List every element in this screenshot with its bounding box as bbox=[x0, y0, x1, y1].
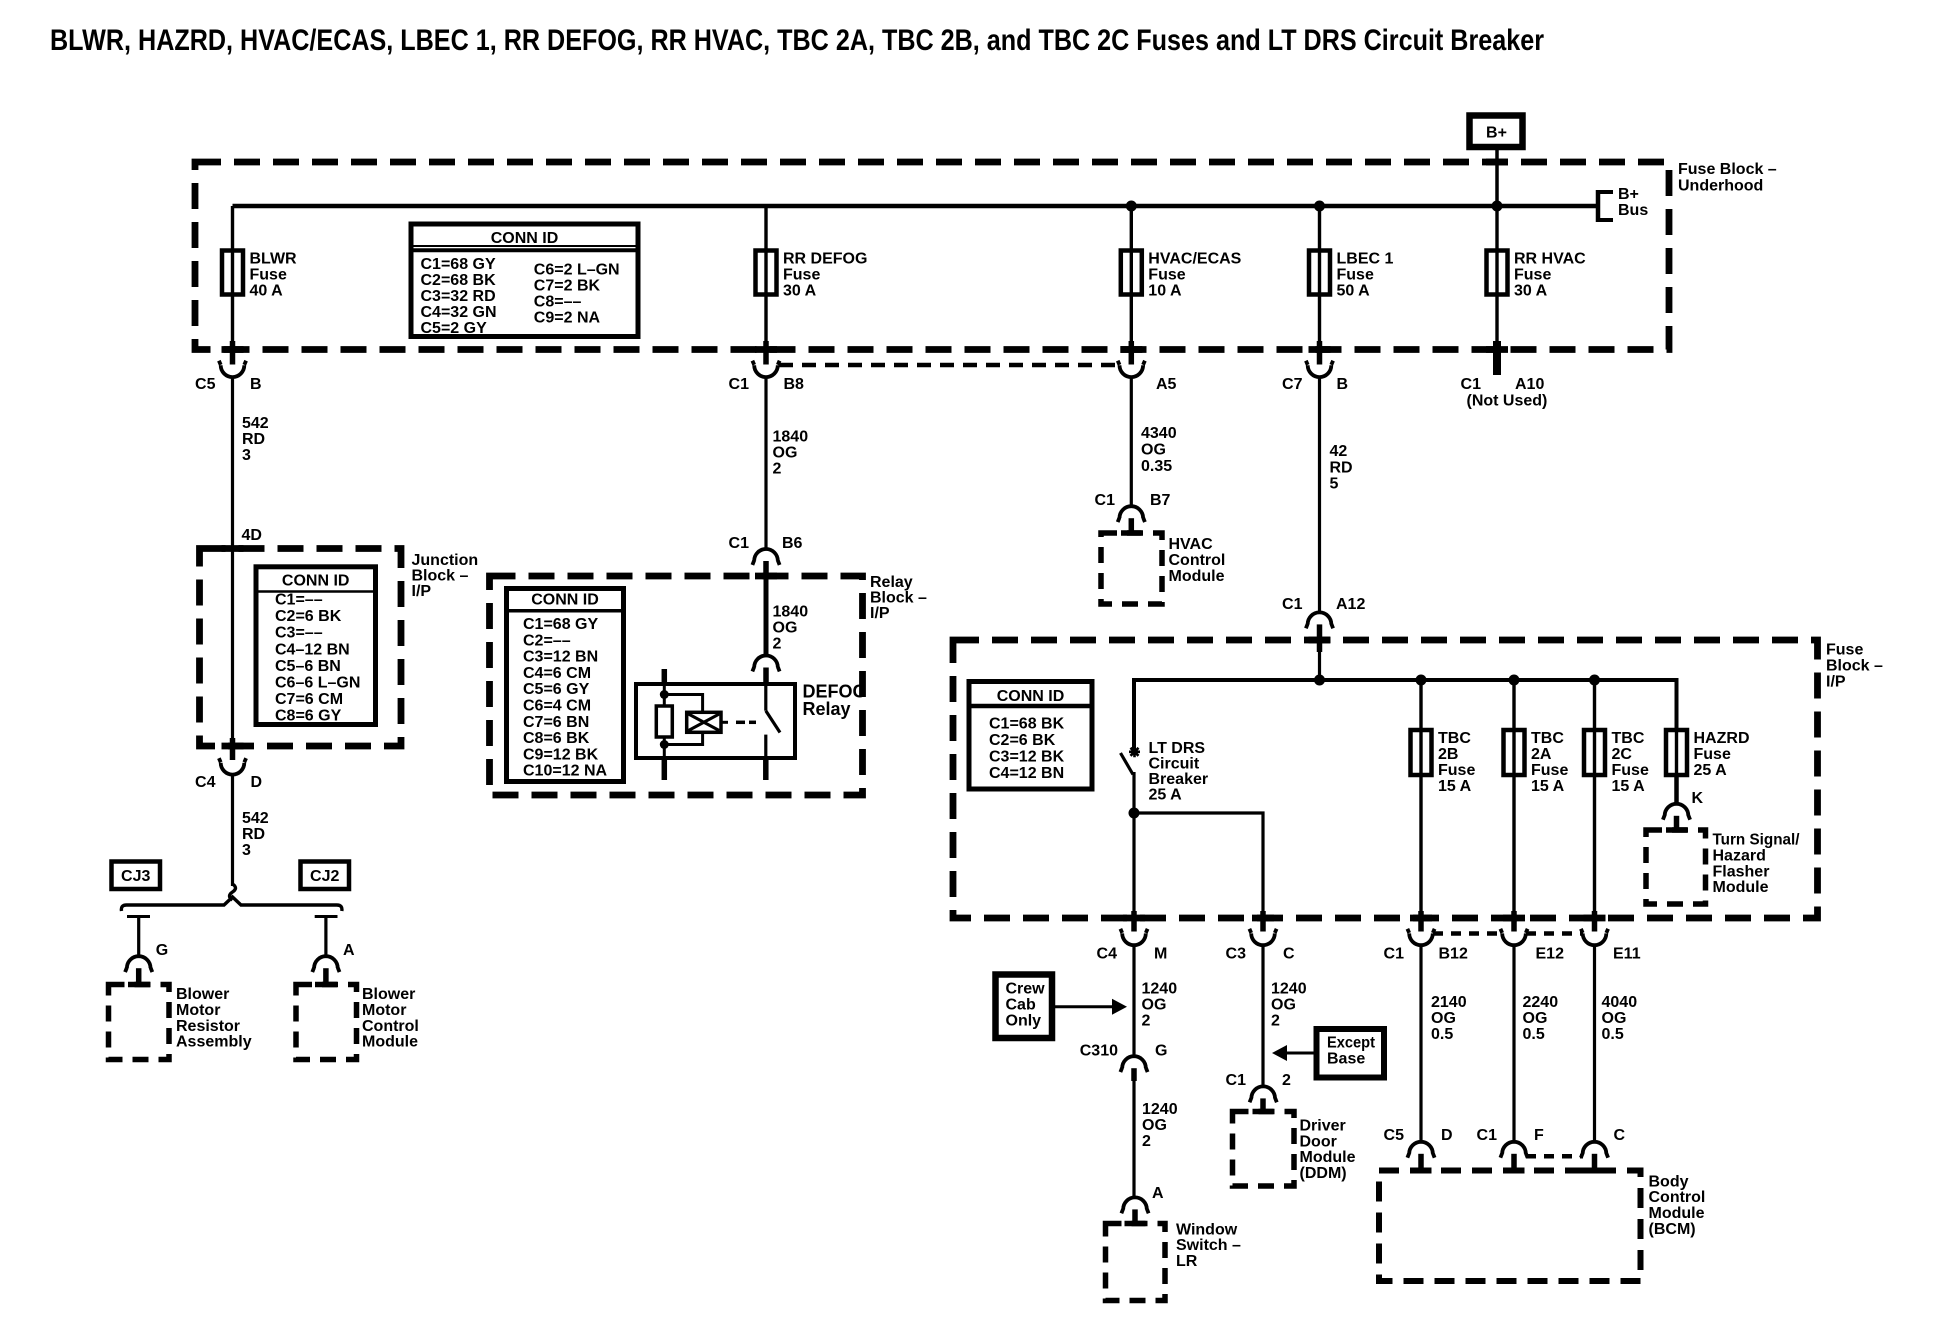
svg-text:15 A: 15 A bbox=[1438, 778, 1472, 795]
svg-text:Module: Module bbox=[1300, 1149, 1356, 1166]
svg-text:OG: OG bbox=[773, 445, 798, 462]
svg-text:0.5: 0.5 bbox=[1523, 1026, 1545, 1043]
svg-text:C6–6 L–GN: C6–6 L–GN bbox=[275, 675, 360, 692]
svg-text:C1: C1 bbox=[1282, 596, 1303, 613]
svg-text:E12: E12 bbox=[1536, 946, 1565, 963]
svg-text:C5: C5 bbox=[195, 376, 216, 393]
svg-text:C4: C4 bbox=[1097, 946, 1118, 963]
svg-text:15 A: 15 A bbox=[1531, 778, 1565, 795]
svg-text:C2=6 BK: C2=6 BK bbox=[989, 732, 1056, 749]
svg-text:G: G bbox=[156, 942, 168, 959]
svg-text:542: 542 bbox=[242, 810, 269, 827]
svg-text:C: C bbox=[1614, 1127, 1626, 1144]
svg-text:C8=6 BK: C8=6 BK bbox=[523, 730, 590, 747]
svg-text:C4–12 BN: C4–12 BN bbox=[275, 641, 350, 658]
svg-text:(Not Used): (Not Used) bbox=[1467, 393, 1548, 410]
svg-text:4D: 4D bbox=[242, 527, 262, 544]
svg-text:I/P: I/P bbox=[870, 605, 890, 622]
svg-text:C1=––: C1=–– bbox=[275, 592, 323, 609]
svg-text:C6=4 CM: C6=4 CM bbox=[523, 698, 591, 715]
svg-text:Fuse: Fuse bbox=[1531, 762, 1568, 779]
svg-text:40 A: 40 A bbox=[250, 283, 284, 300]
svg-text:E11: E11 bbox=[1613, 946, 1641, 963]
svg-text:C6=2 L–GN: C6=2 L–GN bbox=[534, 262, 620, 279]
svg-text:OG: OG bbox=[1602, 1010, 1627, 1027]
svg-text:RD: RD bbox=[242, 431, 265, 448]
svg-text:HAZRD: HAZRD bbox=[1694, 730, 1750, 747]
svg-text:C2=6 BK: C2=6 BK bbox=[275, 608, 342, 625]
svg-text:CONN ID: CONN ID bbox=[997, 688, 1065, 705]
svg-text:D: D bbox=[251, 774, 263, 791]
svg-text:TBC: TBC bbox=[1612, 730, 1645, 747]
svg-text:C4=6 CM: C4=6 CM bbox=[523, 665, 591, 682]
svg-text:CONN ID: CONN ID bbox=[531, 592, 599, 609]
svg-text:Base: Base bbox=[1327, 1051, 1365, 1068]
svg-text:Relay: Relay bbox=[803, 699, 851, 719]
svg-text:OG: OG bbox=[1271, 997, 1296, 1014]
svg-text:Block –: Block – bbox=[870, 590, 927, 607]
svg-text:D: D bbox=[1441, 1127, 1453, 1144]
svg-text:25 A: 25 A bbox=[1149, 787, 1183, 804]
svg-text:Switch –: Switch – bbox=[1176, 1237, 1241, 1254]
svg-text:42: 42 bbox=[1330, 443, 1348, 460]
svg-text:Junction: Junction bbox=[412, 552, 479, 569]
svg-text:Assembly: Assembly bbox=[176, 1034, 252, 1051]
svg-text:A: A bbox=[1152, 1185, 1164, 1202]
svg-text:C5=6 GY: C5=6 GY bbox=[523, 681, 590, 698]
svg-text:CONN ID: CONN ID bbox=[491, 230, 559, 247]
svg-text:1240: 1240 bbox=[1271, 981, 1307, 998]
svg-text:Fuse: Fuse bbox=[1337, 267, 1374, 284]
svg-text:2: 2 bbox=[773, 636, 782, 653]
svg-text:BLWR, HAZRD, HVAC/ECAS, LBEC 1: BLWR, HAZRD, HVAC/ECAS, LBEC 1, RR DEFOG… bbox=[50, 24, 1544, 57]
svg-text:Bus: Bus bbox=[1618, 202, 1648, 219]
svg-text:Module: Module bbox=[362, 1034, 418, 1051]
svg-text:Breaker: Breaker bbox=[1149, 771, 1209, 788]
svg-text:RR HVAC: RR HVAC bbox=[1514, 251, 1586, 268]
svg-text:Body: Body bbox=[1649, 1173, 1689, 1190]
svg-text:Module: Module bbox=[1713, 879, 1769, 896]
svg-text:0.5: 0.5 bbox=[1431, 1026, 1453, 1043]
svg-text:Module: Module bbox=[1169, 568, 1225, 585]
svg-text:5: 5 bbox=[1330, 476, 1339, 493]
svg-text:4040: 4040 bbox=[1602, 994, 1638, 1011]
svg-text:A: A bbox=[343, 942, 355, 959]
svg-text:Crew: Crew bbox=[1006, 980, 1046, 997]
svg-text:2: 2 bbox=[1142, 1133, 1151, 1150]
svg-text:Fuse Block –: Fuse Block – bbox=[1678, 161, 1777, 178]
svg-text:B: B bbox=[1337, 376, 1349, 393]
svg-text:Motor: Motor bbox=[176, 1002, 220, 1019]
svg-text:CJ3: CJ3 bbox=[121, 868, 150, 885]
svg-text:Fuse: Fuse bbox=[1612, 762, 1649, 779]
svg-text:OG: OG bbox=[1431, 1010, 1456, 1027]
svg-text:(BCM): (BCM) bbox=[1649, 1221, 1696, 1238]
svg-text:Blower: Blower bbox=[176, 986, 229, 1003]
svg-text:Circuit: Circuit bbox=[1149, 756, 1200, 773]
svg-text:C1: C1 bbox=[729, 535, 750, 552]
svg-text:C1: C1 bbox=[1477, 1127, 1498, 1144]
svg-text:30 A: 30 A bbox=[1514, 283, 1548, 300]
svg-text:LBEC 1: LBEC 1 bbox=[1337, 251, 1394, 268]
svg-text:C3=12 BN: C3=12 BN bbox=[523, 649, 598, 666]
svg-text:2140: 2140 bbox=[1431, 994, 1467, 1011]
svg-text:B+: B+ bbox=[1486, 125, 1507, 142]
svg-text:A10: A10 bbox=[1515, 376, 1544, 393]
svg-text:Fuse: Fuse bbox=[250, 267, 287, 284]
svg-text:2C: 2C bbox=[1612, 746, 1633, 763]
svg-text:2: 2 bbox=[773, 461, 782, 478]
svg-text:1840: 1840 bbox=[773, 429, 809, 446]
svg-text:2: 2 bbox=[1271, 1013, 1280, 1030]
svg-text:C7=6 CM: C7=6 CM bbox=[275, 691, 343, 708]
svg-text:C7: C7 bbox=[1282, 376, 1303, 393]
svg-text:A12: A12 bbox=[1336, 596, 1365, 613]
svg-text:C1=68 GY: C1=68 GY bbox=[523, 616, 598, 633]
svg-text:OG: OG bbox=[1523, 1010, 1548, 1027]
svg-text:0.35: 0.35 bbox=[1141, 458, 1172, 475]
svg-text:Motor: Motor bbox=[362, 1002, 406, 1019]
svg-text:C3=12 BK: C3=12 BK bbox=[989, 749, 1065, 766]
svg-text:A5: A5 bbox=[1156, 376, 1177, 393]
svg-text:C2=68 BK: C2=68 BK bbox=[421, 272, 497, 289]
svg-text:2A: 2A bbox=[1531, 746, 1552, 763]
svg-text:542: 542 bbox=[242, 415, 269, 432]
svg-text:2: 2 bbox=[1142, 1013, 1151, 1030]
svg-text:C7=2 BK: C7=2 BK bbox=[534, 278, 601, 295]
svg-text:OG: OG bbox=[1142, 1117, 1167, 1134]
svg-text:B12: B12 bbox=[1439, 946, 1468, 963]
svg-text:15 A: 15 A bbox=[1612, 778, 1646, 795]
svg-text:C1=68 GY: C1=68 GY bbox=[421, 256, 496, 273]
svg-text:Control: Control bbox=[1649, 1189, 1706, 1206]
svg-text:B: B bbox=[250, 376, 262, 393]
svg-text:C310: C310 bbox=[1080, 1043, 1118, 1060]
svg-text:Fuse: Fuse bbox=[1826, 642, 1863, 659]
svg-text:25 A: 25 A bbox=[1694, 762, 1728, 779]
svg-text:C1=68 BK: C1=68 BK bbox=[989, 716, 1065, 733]
svg-text:Relay: Relay bbox=[870, 574, 913, 591]
svg-text:C1: C1 bbox=[1461, 376, 1482, 393]
svg-text:Hazard: Hazard bbox=[1713, 847, 1766, 864]
svg-text:0.5: 0.5 bbox=[1602, 1026, 1624, 1043]
svg-text:I/P: I/P bbox=[1826, 674, 1846, 691]
svg-text:OG: OG bbox=[1142, 997, 1167, 1014]
svg-text:30 A: 30 A bbox=[783, 283, 817, 300]
svg-text:Driver: Driver bbox=[1300, 1117, 1346, 1134]
svg-text:Resistor: Resistor bbox=[176, 1018, 240, 1035]
svg-text:C3=32 RD: C3=32 RD bbox=[421, 288, 496, 305]
svg-text:2B: 2B bbox=[1438, 746, 1458, 763]
svg-text:1240: 1240 bbox=[1142, 981, 1178, 998]
svg-text:C4=32 GN: C4=32 GN bbox=[421, 304, 497, 321]
svg-text:Fuse: Fuse bbox=[1694, 746, 1731, 763]
svg-text:(DDM): (DDM) bbox=[1300, 1165, 1347, 1182]
svg-text:LT DRS: LT DRS bbox=[1149, 740, 1206, 757]
svg-text:3: 3 bbox=[242, 842, 251, 859]
svg-text:C5–6 BN: C5–6 BN bbox=[275, 658, 341, 675]
svg-text:10 A: 10 A bbox=[1148, 283, 1182, 300]
svg-text:Flasher: Flasher bbox=[1713, 863, 1770, 880]
svg-text:Control: Control bbox=[362, 1018, 419, 1035]
svg-text:C1: C1 bbox=[1095, 492, 1116, 509]
svg-text:Block –: Block – bbox=[412, 568, 469, 585]
svg-text:4340: 4340 bbox=[1141, 425, 1177, 442]
svg-text:Fuse: Fuse bbox=[783, 267, 820, 284]
svg-text:Control: Control bbox=[1169, 552, 1226, 569]
svg-text:OG: OG bbox=[1141, 442, 1166, 459]
svg-text:C4=12 BN: C4=12 BN bbox=[989, 765, 1064, 782]
svg-text:TBC: TBC bbox=[1531, 730, 1564, 747]
svg-text:C3: C3 bbox=[1226, 946, 1247, 963]
svg-text:C8=––: C8=–– bbox=[534, 294, 582, 311]
svg-text:B7: B7 bbox=[1150, 492, 1171, 509]
svg-text:RD: RD bbox=[1330, 459, 1353, 476]
svg-text:RR DEFOG: RR DEFOG bbox=[783, 251, 867, 268]
svg-text:Window: Window bbox=[1176, 1221, 1238, 1238]
svg-text:Fuse: Fuse bbox=[1148, 267, 1185, 284]
svg-text:C5=2 GY: C5=2 GY bbox=[421, 320, 488, 337]
svg-text:G: G bbox=[1155, 1043, 1167, 1060]
svg-text:C5: C5 bbox=[1384, 1127, 1405, 1144]
svg-text:Cab: Cab bbox=[1006, 996, 1036, 1013]
svg-text:Door: Door bbox=[1300, 1133, 1337, 1150]
svg-text:C1: C1 bbox=[729, 376, 750, 393]
svg-text:B8: B8 bbox=[784, 376, 805, 393]
svg-text:Block –: Block – bbox=[1826, 658, 1883, 675]
svg-text:C10=12 NA: C10=12 NA bbox=[523, 763, 607, 780]
svg-text:TBC: TBC bbox=[1438, 730, 1471, 747]
svg-text:C9=2 NA: C9=2 NA bbox=[534, 310, 601, 327]
svg-text:C3=––: C3=–– bbox=[275, 625, 323, 642]
svg-text:C2=––: C2=–– bbox=[523, 632, 571, 649]
svg-text:2240: 2240 bbox=[1523, 994, 1559, 1011]
svg-text:C4: C4 bbox=[195, 774, 216, 791]
svg-text:Fuse: Fuse bbox=[1514, 267, 1551, 284]
svg-text:Blower: Blower bbox=[362, 986, 415, 1003]
svg-text:LR: LR bbox=[1176, 1253, 1198, 1270]
svg-text:50 A: 50 A bbox=[1337, 283, 1371, 300]
svg-text:3: 3 bbox=[242, 447, 251, 464]
svg-text:C: C bbox=[1283, 946, 1295, 963]
svg-text:HVAC/ECAS: HVAC/ECAS bbox=[1148, 251, 1241, 268]
svg-text:F: F bbox=[1534, 1127, 1544, 1144]
svg-text:C1: C1 bbox=[1384, 946, 1405, 963]
svg-text:Except: Except bbox=[1327, 1035, 1376, 1052]
svg-text:2: 2 bbox=[1282, 1072, 1291, 1089]
svg-text:B+: B+ bbox=[1618, 186, 1639, 203]
svg-text:Module: Module bbox=[1649, 1205, 1705, 1222]
svg-text:CONN ID: CONN ID bbox=[282, 573, 350, 590]
svg-text:CJ2: CJ2 bbox=[310, 868, 339, 885]
svg-text:1840: 1840 bbox=[773, 604, 809, 621]
svg-text:HVAC: HVAC bbox=[1169, 536, 1214, 553]
svg-text:1240: 1240 bbox=[1142, 1101, 1178, 1118]
svg-text:B6: B6 bbox=[782, 535, 803, 552]
svg-text:Turn Signal/: Turn Signal/ bbox=[1713, 832, 1801, 849]
svg-text:BLWR: BLWR bbox=[250, 251, 298, 268]
svg-text:C8=6 GY: C8=6 GY bbox=[275, 708, 342, 725]
svg-text:K: K bbox=[1692, 790, 1704, 807]
svg-text:RD: RD bbox=[242, 826, 265, 843]
svg-text:I/P: I/P bbox=[412, 583, 432, 600]
svg-text:Only: Only bbox=[1006, 1013, 1042, 1030]
svg-text:Fuse: Fuse bbox=[1438, 762, 1475, 779]
svg-text:C7=6 BN: C7=6 BN bbox=[523, 714, 589, 731]
svg-text:Underhood: Underhood bbox=[1678, 178, 1763, 195]
svg-text:M: M bbox=[1154, 946, 1167, 963]
svg-text:OG: OG bbox=[773, 620, 798, 637]
svg-text:C9=12 BK: C9=12 BK bbox=[523, 746, 599, 763]
svg-text:C1: C1 bbox=[1226, 1072, 1247, 1089]
